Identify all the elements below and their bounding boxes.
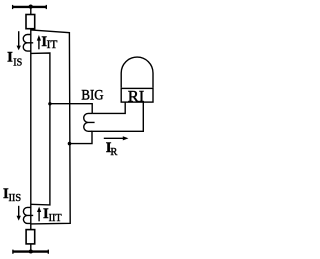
svg-text:I: I	[7, 49, 13, 65]
svg-text:IS: IS	[13, 57, 22, 68]
svg-text:BIG: BIG	[81, 88, 103, 104]
svg-text:RI: RI	[128, 89, 145, 105]
svg-text:IIT: IIT	[49, 213, 63, 224]
svg-text:IIS: IIS	[9, 192, 22, 204]
svg-text:IT: IT	[47, 38, 58, 51]
svg-text:R: R	[110, 146, 118, 158]
